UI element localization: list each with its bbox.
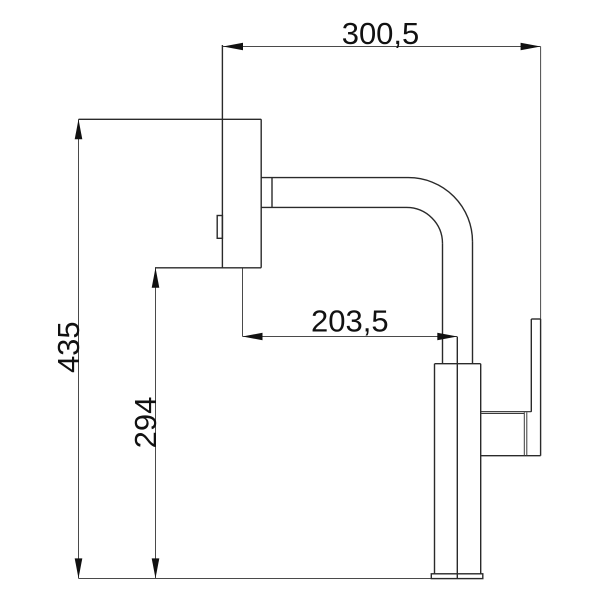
dim line 300,5 <box>223 46 541 48</box>
svg-text:435: 435 <box>51 321 86 373</box>
spout outer bend arc <box>409 178 473 242</box>
spout inner bend arc <box>407 207 443 243</box>
wall plate right edge <box>260 119 262 267</box>
button on plate <box>217 216 222 239</box>
wall plate left edge + extension up to 300,5 <box>221 45 223 268</box>
dim line 203,5 <box>243 336 458 338</box>
spout joint line <box>271 178 273 208</box>
dim line 294 vertical <box>155 268 157 579</box>
spout bottom line <box>261 206 406 208</box>
arrow down of 294 <box>152 558 160 578</box>
extension line from plate bottom to 203,5 <box>242 268 244 337</box>
arrow right of 300,5 <box>521 43 541 51</box>
valve housing top edge <box>481 411 532 413</box>
handle lever top edge <box>531 318 540 320</box>
handle lever right edge <box>540 319 542 456</box>
wall plate bottom edge extended to 294 dim <box>155 267 261 269</box>
valve housing inner top line <box>481 413 525 415</box>
pipe right vertical <box>472 242 474 364</box>
valve housing joint double line b <box>526 412 528 455</box>
body right edge <box>480 364 482 574</box>
hose inner line <box>456 337 458 579</box>
arrow up of 435 <box>75 119 83 139</box>
arrow left of 300,5 <box>223 43 243 51</box>
dim line 435 vertical <box>78 119 80 578</box>
svg-text:300,5: 300,5 <box>342 16 420 51</box>
body top edge <box>435 363 481 365</box>
svg-text:203,5: 203,5 <box>311 304 389 339</box>
valve housing joint double line a <box>523 412 525 455</box>
handle lever left edge <box>530 319 532 412</box>
valve housing bottom edge <box>481 455 541 457</box>
arrow left of 203,5 <box>243 333 263 341</box>
arrow down of 435 <box>75 558 83 578</box>
extension line right of 300,5 down to handle <box>540 47 542 320</box>
svg-text:294: 294 <box>128 397 163 449</box>
arrow up of 294 <box>152 268 160 288</box>
spout top line <box>261 177 408 179</box>
arrow right of 203,5 <box>437 333 457 341</box>
counter reference line <box>79 578 432 580</box>
base plate <box>431 574 483 579</box>
wall plate top edge extended to 435 dim <box>79 118 262 120</box>
body left edge <box>434 364 436 574</box>
pipe left vertical <box>442 243 444 363</box>
